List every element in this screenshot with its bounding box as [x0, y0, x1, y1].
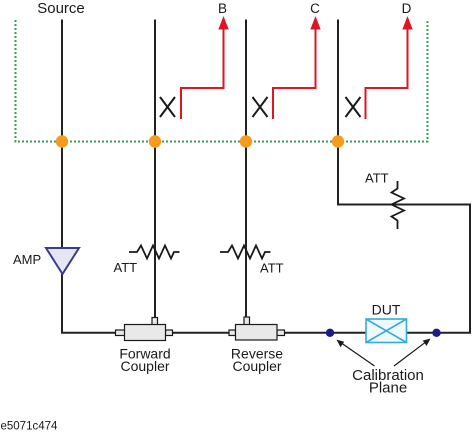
switch X (C branch) — [253, 97, 268, 117]
node: calibration plane right (blue dot) — [432, 329, 440, 337]
amplifier AMP — [46, 248, 79, 274]
svg-text:e5071c474: e5071c474 — [1, 421, 59, 433]
svg-text:Coupler: Coupler — [232, 358, 281, 374]
forward coupler body — [116, 318, 173, 341]
svg-text:ATT: ATT — [260, 261, 284, 276]
svg-text:D: D — [402, 1, 412, 16]
attenuator ATT1 (horizontal resistor on B branch) — [129, 246, 180, 259]
wire: forward to reverse coupler — [173, 332, 230, 334]
wire: reverse coupler to DUT — [285, 332, 367, 334]
callout arrow right — [394, 341, 428, 366]
receiver arrow C (red) — [273, 29, 316, 119]
receiver arrow D (red) — [366, 29, 408, 119]
wire: source line — [61, 20, 63, 249]
svg-text:Coupler: Coupler — [120, 358, 169, 374]
wire: receiver line B branch — [154, 20, 156, 318]
wire: receiver line C branch — [245, 20, 247, 318]
wire: receiver line D branch to right side — [338, 20, 470, 333]
switch X (D branch) — [346, 97, 361, 117]
switch X (B branch) — [160, 97, 175, 117]
attenuator ATT2 (horizontal resistor on C branch) — [220, 246, 271, 259]
svg-text:Source: Source — [37, 0, 85, 17]
svg-text:ATT: ATT — [365, 171, 389, 186]
DUT box — [366, 319, 407, 343]
svg-text:ATT: ATT — [114, 260, 138, 275]
node: port B junction — [56, 135, 68, 147]
receiver arrow B (red) — [181, 29, 224, 119]
node: calibration plane left (blue dot) — [326, 329, 334, 337]
node: junction 3 — [240, 135, 252, 147]
node: junction 2 — [149, 135, 161, 147]
callout arrow left — [340, 342, 375, 366]
reverse coupler body — [229, 317, 285, 340]
attenuator ATT3 (vertical resistor on D branch) — [392, 181, 405, 229]
svg-text:AMP: AMP — [13, 252, 41, 267]
svg-text:Plane: Plane — [369, 380, 407, 397]
wire: amp output to forward coupler — [62, 274, 116, 333]
net: leveling loop (green dashed) — [16, 20, 428, 142]
svg-text:B: B — [218, 1, 227, 16]
node: junction 4 — [332, 135, 344, 147]
svg-text:DUT: DUT — [372, 302, 401, 318]
svg-text:C: C — [310, 1, 320, 16]
